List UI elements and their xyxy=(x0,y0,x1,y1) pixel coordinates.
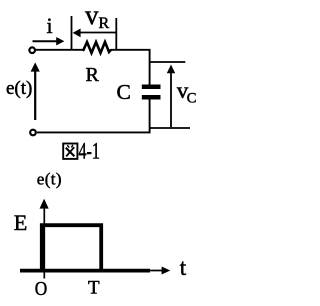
vC bracket top tick xyxy=(150,61,186,63)
capacitor C bottom plate xyxy=(142,95,161,100)
graph x-axis xyxy=(44,267,170,275)
pulse waveform rectangle xyxy=(42,225,101,271)
terminal bottom-left xyxy=(30,130,36,136)
svg-text:E: E xyxy=(14,210,28,235)
source arrow e(t) xyxy=(31,62,40,120)
svg-text:C: C xyxy=(117,80,131,104)
label vC xyxy=(177,78,197,107)
pulse waveform baseline xyxy=(20,269,150,273)
vR bracket right tick xyxy=(115,18,117,50)
svg-text:t: t xyxy=(180,255,187,280)
svg-text:i: i xyxy=(47,13,53,38)
label E xyxy=(14,210,28,235)
resistor R xyxy=(83,42,111,53)
svg-text:e(t): e(t) xyxy=(6,78,32,99)
svg-text:T: T xyxy=(88,278,100,299)
vC bracket bottom tick xyxy=(150,127,191,129)
label t xyxy=(180,255,187,280)
vR arrow xyxy=(73,29,116,38)
label T xyxy=(88,278,100,299)
label vR xyxy=(85,0,110,32)
capacitor C top plate xyxy=(142,85,161,90)
wire top: source to resistor xyxy=(36,49,84,51)
vC arrow xyxy=(167,65,175,128)
label e(t) source xyxy=(6,78,32,99)
svg-text:4-1: 4-1 xyxy=(79,139,101,164)
svg-text:R: R xyxy=(86,64,100,86)
terminal top-left xyxy=(29,47,35,53)
graph y-axis xyxy=(40,199,49,279)
svg-text:O: O xyxy=(35,278,48,300)
label O xyxy=(35,278,48,300)
graph label e(t) xyxy=(37,170,62,189)
current arrow i xyxy=(33,37,65,45)
label C xyxy=(117,80,131,104)
vR bracket left tick xyxy=(71,16,73,50)
wire: capacitor to bottom-right corner, back to source xyxy=(37,100,150,133)
label i xyxy=(47,13,53,38)
wire top: resistor to top-right corner, down to capacitor xyxy=(111,50,150,85)
svg-text:e(t): e(t) xyxy=(37,170,62,189)
label R xyxy=(86,64,100,86)
caption text 4-1 xyxy=(79,139,101,164)
caption kanji zu (figure) box xyxy=(63,144,77,159)
